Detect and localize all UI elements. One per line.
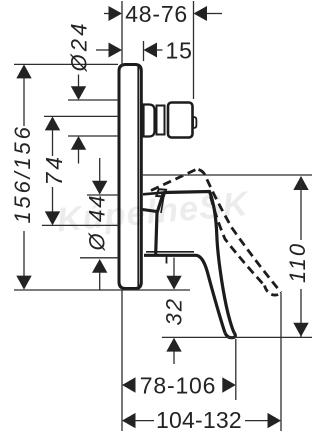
extension line plate front (15)	[143, 41, 145, 61]
svg-text:74: 74	[41, 154, 67, 186]
svg-text:78-106: 78-106	[140, 372, 216, 398]
dimension 110	[293, 176, 308, 190]
svg-text:15: 15	[166, 37, 193, 63]
dashed raised lever lower edge	[211, 197, 265, 286]
svg-text:104-132: 104-132	[156, 407, 242, 433]
svg-text:32: 32	[162, 297, 187, 325]
dimension line stem bottom (O24 lower)	[68, 135, 119, 137]
handle pivot cap	[156, 189, 166, 196]
dimension 78-106	[122, 377, 136, 392]
plate front inner edge line	[137, 66, 139, 287]
dimension line handle top (O44 top)	[87, 194, 119, 196]
dimension 104-132	[122, 413, 136, 428]
dimension 74	[45, 116, 60, 130]
handle neck line	[161, 197, 164, 214]
escutcheon plate (side view)	[119, 65, 141, 289]
cartridge collar ring	[157, 106, 165, 135]
cartridge housing	[168, 103, 193, 138]
extension line wall plane top	[121, 1, 123, 66]
extension line cartridge front	[193, 1, 195, 99]
handle lever tip	[225, 333, 235, 338]
handle base bottom inner line	[146, 251, 194, 253]
dimension O44	[99, 158, 101, 182]
dimension line 74 bottom	[42, 224, 119, 226]
dashed raised lever tip	[265, 286, 281, 296]
dimension line stem top (O24 upper)	[68, 99, 119, 101]
dimension 15	[96, 49, 110, 51]
svg-text:156/156: 156/156	[10, 124, 35, 223]
handle base body	[156, 192, 235, 333]
dimension line raised lever top (110 top)	[141, 174, 312, 176]
dimension 48-76	[104, 13, 110, 15]
dimension line plate bottom / 156 bottom / 32 top	[14, 289, 190, 291]
extension line wall plane bottom	[121, 290, 123, 431]
dashed raised lever upper edge descent	[199, 170, 282, 293]
handle seam tick	[166, 256, 168, 264]
dimension line plate top / 156 top	[14, 63, 118, 65]
handle top connector to plate	[143, 193, 164, 195]
dimension line stem axis (74 top)	[44, 115, 119, 117]
dimension 156/156	[16, 64, 31, 78]
extension line solid lever tip	[235, 339, 237, 400]
extension line dashed lever tip	[280, 293, 282, 432]
svg-text:Ø: Ø	[85, 231, 110, 251]
svg-text:Ø24: Ø24	[67, 20, 92, 72]
svg-text:48-76: 48-76	[125, 1, 188, 27]
spindle bump	[193, 117, 196, 128]
svg-text:44: 44	[85, 194, 110, 222]
dimension line handle bottom (O44 bottom)	[80, 257, 119, 259]
cartridge sleeve	[144, 105, 155, 137]
dashed raised lever upper edge rise	[151, 169, 198, 191]
dimension 32	[173, 258, 175, 277]
dimension line lever tip bottom (110 bottom)	[162, 336, 312, 338]
handle stub to plate	[143, 210, 158, 212]
handle base bottom line	[144, 255, 225, 332]
svg-text:110: 110	[285, 242, 310, 283]
